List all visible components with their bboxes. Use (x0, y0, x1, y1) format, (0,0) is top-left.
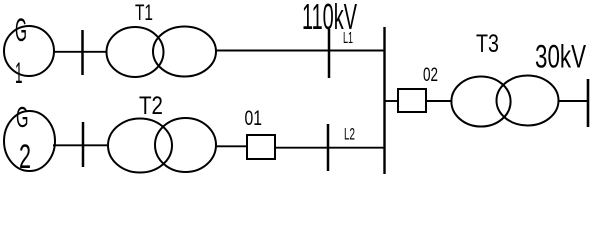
terminal bar 30kV (587, 79, 590, 127)
svg-text:1: 1 (15, 57, 23, 90)
breaker 01 (247, 135, 275, 159)
busbar 110kV (383, 27, 385, 174)
svg-text:110kV: 110kV (302, 0, 357, 37)
wire T2 to breaker 01 (216, 145, 247, 147)
wire line L1: T1 to 110kV bus (216, 50, 384, 52)
svg-text:01: 01 (245, 107, 263, 130)
breaker tick on line L1 (328, 29, 331, 78)
breaker tick on line L2 (327, 124, 330, 171)
wire breaker 02 to T3 (426, 100, 451, 102)
svg-text:T1: T1 (135, 0, 153, 25)
wire G2 to T2 (53, 144, 108, 146)
wire T3 to 30kV terminal (559, 100, 588, 102)
wire G1 to T1 (54, 51, 107, 53)
transformer T2 (108, 118, 216, 173)
svg-text:02: 02 (423, 65, 438, 86)
generator G1 (4, 26, 54, 76)
svg-text:L2: L2 (344, 125, 355, 144)
transformer T3 (451, 76, 558, 127)
svg-text:G: G (15, 12, 27, 48)
wire bus to breaker 02 (385, 100, 399, 102)
wire line L2: breaker 01 to 110kV bus (275, 147, 384, 149)
breaker 02 (398, 89, 426, 112)
svg-text:30kV: 30kV (535, 39, 586, 75)
svg-text:T2: T2 (139, 92, 163, 120)
transformer T1 (107, 27, 217, 78)
svg-text:T3: T3 (476, 30, 499, 58)
svg-text:G: G (16, 102, 29, 134)
breaker tick on G2 lead (82, 122, 85, 167)
breaker tick on G1 lead (81, 30, 84, 75)
generator G2 (4, 111, 55, 171)
svg-text:2: 2 (19, 138, 31, 176)
